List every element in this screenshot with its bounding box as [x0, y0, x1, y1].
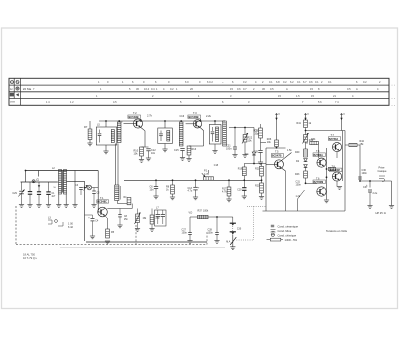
- svg-text:R19: R19: [238, 168, 243, 171]
- svg-text:6.7: 6.7: [303, 80, 307, 84]
- svg-text:4.5: 4.5: [113, 100, 117, 104]
- svg-text:R40: R40: [295, 151, 300, 154]
- svg-text:T.2: T.2: [133, 111, 137, 115]
- svg-text:0.5: 0.5: [270, 87, 274, 91]
- svg-text:0.1: 0.1: [328, 80, 332, 84]
- svg-text:10 T-79 Q.L: 10 T-79 Q.L: [23, 256, 38, 260]
- svg-text:G: G: [36, 178, 39, 182]
- svg-text:C30: C30: [237, 229, 242, 231]
- svg-text:R43: R43: [295, 173, 300, 176]
- svg-text:16.4: 16.4: [144, 87, 150, 91]
- svg-text:BC548C: BC548C: [97, 201, 107, 204]
- svg-text:V.D: V.D: [189, 212, 193, 215]
- svg-text:1 4: 1 4: [46, 100, 50, 104]
- svg-text:0.2: 0.2: [363, 80, 367, 84]
- svg-text:6 0: 6 0: [185, 80, 189, 84]
- svg-text:100n: 100n: [362, 172, 368, 175]
- svg-text:R13: R13: [192, 148, 197, 151]
- svg-text:0.5: 0.5: [347, 87, 351, 91]
- svg-text:C29: C29: [12, 192, 17, 195]
- svg-text:1.5k: 1.5k: [287, 149, 292, 152]
- svg-text:Tensions en Volts: Tensions en Volts: [326, 229, 348, 233]
- svg-text:C18: C18: [214, 165, 219, 167]
- svg-text:H: H: [10, 87, 12, 91]
- svg-text:R7: R7: [84, 125, 88, 129]
- svg-text:0.6: 0.6: [309, 80, 313, 84]
- svg-text:R37: R37: [198, 210, 203, 213]
- svg-text:R25: R25: [254, 130, 259, 133]
- svg-text:R21: R21: [255, 168, 260, 171]
- svg-text:Cond. Mica: Cond. Mica: [278, 229, 292, 233]
- svg-text:4.7u: 4.7u: [188, 190, 193, 193]
- svg-text:0.6: 0.6: [237, 87, 241, 91]
- svg-text:1.5: 1.5: [296, 94, 300, 98]
- svg-text:T.5: T.5: [275, 150, 279, 154]
- svg-text:Casque: Casque: [378, 169, 387, 173]
- svg-text:cras: cras: [10, 100, 16, 104]
- svg-text:Cond. céramique: Cond. céramique: [278, 224, 299, 228]
- svg-text:BZY80A: BZY80A: [329, 138, 339, 141]
- svg-text:0.1: 0.1: [315, 80, 319, 84]
- svg-text:100n: 100n: [182, 232, 188, 235]
- svg-text:A: A: [286, 87, 288, 91]
- svg-text:2.2k: 2.2k: [206, 114, 212, 118]
- svg-text:1 00: 1 00: [68, 223, 73, 226]
- svg-text:2.7k: 2.7k: [147, 113, 153, 117]
- svg-text:BZY80A: BZY80A: [314, 154, 324, 157]
- svg-text:0.4: 0.4: [151, 87, 155, 91]
- svg-text:20 Ma: 20 Ma: [23, 87, 32, 91]
- svg-text:HP 25: HP 25: [376, 211, 384, 215]
- svg-text:0.2: 0.2: [170, 87, 174, 91]
- svg-text:Ω: Ω: [384, 211, 386, 215]
- svg-text:Cond. chimique: Cond. chimique: [278, 233, 297, 237]
- svg-text:R23: R23: [255, 185, 260, 188]
- svg-text:2.2u: 2.2u: [373, 192, 378, 195]
- svg-text:C16: C16: [180, 115, 185, 118]
- svg-text:18 AL 750: 18 AL 750: [23, 252, 36, 256]
- svg-text:10n: 10n: [150, 189, 155, 192]
- svg-text:6 42: 6 42: [68, 226, 73, 229]
- svg-text:R34: R34: [311, 138, 316, 141]
- svg-text:0.1: 0.1: [269, 80, 273, 84]
- svg-text:0.2: 0.2: [283, 80, 287, 84]
- svg-text:7 4: 7 4: [335, 100, 339, 104]
- svg-text:Prise: Prise: [379, 166, 385, 170]
- svg-text:100n: 100n: [296, 184, 302, 187]
- svg-text:1 2: 1 2: [70, 100, 74, 104]
- svg-text:M.A: M.A: [226, 240, 231, 243]
- svg-text:6.8: 6.8: [276, 80, 280, 84]
- svg-text:10n: 10n: [151, 152, 156, 155]
- svg-text:6.2: 6.2: [290, 80, 294, 84]
- svg-text:1/4W - 5%: 1/4W - 5%: [285, 238, 298, 242]
- svg-text:100n: 100n: [208, 232, 214, 235]
- svg-text:C25: C25: [254, 151, 259, 154]
- svg-text:C15: C15: [174, 149, 179, 152]
- svg-text:T.3: T.3: [193, 111, 197, 115]
- svg-text:100k: 100k: [203, 210, 209, 213]
- svg-text:1.2k: 1.2k: [296, 195, 301, 198]
- svg-text:0.1: 0.1: [297, 80, 301, 84]
- svg-text:A: A: [356, 87, 358, 91]
- svg-text:BZY80M: BZY80M: [330, 169, 340, 172]
- svg-text:4.7k: 4.7k: [222, 191, 227, 194]
- svg-text:6 0.2: 6 0.2: [207, 80, 213, 84]
- svg-text:R41: R41: [297, 122, 302, 125]
- svg-text:100n: 100n: [226, 147, 232, 150]
- svg-text:BZY80M: BZY80M: [314, 181, 324, 184]
- svg-text:5 6: 5 6: [318, 100, 322, 104]
- svg-text:0.7: 0.7: [243, 87, 247, 91]
- svg-text:BC547B: BC547B: [272, 155, 282, 158]
- svg-text:C20: C20: [237, 190, 242, 192]
- svg-text:0 2: 0 2: [243, 80, 247, 84]
